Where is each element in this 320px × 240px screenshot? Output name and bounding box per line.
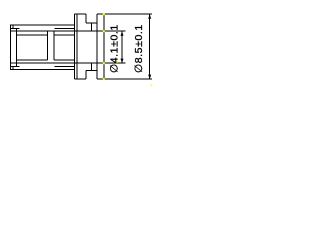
barrel left face xyxy=(10,25,12,70)
neck top edge xyxy=(86,22,97,24)
svg-text:∅8.5±0.1: ∅8.5±0.1 xyxy=(133,24,145,73)
barrel wall cap bottom xyxy=(12,67,14,70)
shaft chamfer line bottom left xyxy=(17,59,48,61)
shaft chamfer line bottom right xyxy=(54,59,75,61)
body chamfer line xyxy=(103,14,105,79)
neck feature line bottom xyxy=(91,63,93,70)
arrowhead d8.5 top xyxy=(148,14,151,19)
svg-text:∅4.1±0.1: ∅4.1±0.1 xyxy=(108,24,120,73)
neck feature line top xyxy=(91,23,93,31)
shaft chamfer line top right xyxy=(54,34,75,36)
barrel wall cap top xyxy=(12,25,14,29)
slot left edge xyxy=(46,31,48,60)
flange left edge xyxy=(74,14,76,79)
body bottom edge + extension overshoot xyxy=(97,78,152,80)
body left face xyxy=(96,14,98,79)
bore bottom face xyxy=(16,28,18,67)
arrowhead d4.1 bottom xyxy=(121,59,124,64)
flange bottom edge xyxy=(75,78,86,80)
bore inner top right segment xyxy=(55,27,75,29)
arrowhead d4.1 top xyxy=(121,31,124,36)
dimension line d4.1 xyxy=(121,31,123,63)
slot right edge xyxy=(53,31,55,60)
shaft chamfer line top left xyxy=(17,34,48,36)
bore inner top stub xyxy=(11,27,20,29)
flange top edge xyxy=(75,13,86,15)
bore inner bottom right segment xyxy=(55,65,75,67)
shaft top edge + extension line xyxy=(11,30,126,32)
vertex marker dots xyxy=(103,13,153,86)
arrowhead d8.5 bottom xyxy=(148,75,151,80)
bore inner bottom stub xyxy=(11,66,20,68)
body top edge + extension overshoot xyxy=(97,13,152,15)
dimension line d8.5 / body right face xyxy=(149,14,151,79)
neck bottom edge xyxy=(86,70,97,72)
barrel outer bottom edge xyxy=(11,68,75,70)
flange right edge xyxy=(76,14,78,79)
neck step bottom xyxy=(85,71,87,80)
barrel outer top edge xyxy=(11,24,75,26)
neck step top xyxy=(85,14,87,23)
shaft bottom edge + extension line xyxy=(11,62,126,64)
